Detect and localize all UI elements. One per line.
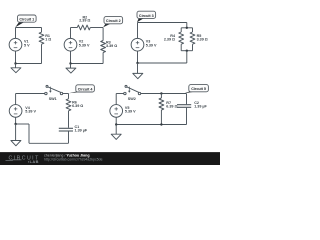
wire V2 bottom lead	[70, 51, 72, 63]
wire left vertical circuit 1	[15, 28, 17, 39]
wire R5 top lead	[192, 28, 194, 32]
svg-text:Circuit 4: Circuit 4	[78, 87, 94, 91]
voltage source V5	[110, 105, 123, 118]
voltage source V4	[9, 105, 22, 118]
node junction parallel top	[186, 27, 188, 29]
wire parallel stub	[186, 23, 188, 28]
wire ground lead circuit 5	[115, 125, 117, 135]
wire R5 bottom lead	[192, 44, 194, 51]
wire parallel bottom bar	[181, 50, 192, 52]
wire top rail circuit 5 right	[141, 93, 187, 95]
voltage source V1	[9, 38, 22, 51]
resistor R5	[190, 32, 195, 44]
switch SW2	[124, 92, 126, 94]
wire ground lead circuit 3	[137, 63, 139, 73]
svg-text:3.39 Ω: 3.39 Ω	[106, 44, 117, 48]
svg-text:Circuit 2: Circuit 2	[106, 19, 121, 23]
node junction R7 top	[160, 92, 162, 94]
svg-text:http://circuitlab.com/c/7hs94a: http://circuitlab.com/c/7hs94a2kpc5de	[44, 157, 103, 161]
wire R4 top lead	[180, 28, 182, 32]
wire SW1 to R6	[63, 93, 69, 95]
svg-text:5.39 V: 5.39 V	[146, 44, 157, 48]
wire R6 top lead	[68, 94, 70, 99]
wire V1 bottom lead	[15, 51, 17, 63]
node junction circuit 3	[136, 62, 138, 64]
wire R4 bottom lead	[180, 44, 182, 51]
wire bottom rail circuit 5	[116, 124, 186, 126]
node junction circuit 4	[14, 123, 16, 125]
svg-text:SW1: SW1	[49, 97, 57, 101]
callout Circuit 5	[184, 85, 208, 94]
wire top rail circuit 1	[16, 27, 42, 29]
svg-text:6.39 Ω: 6.39 Ω	[72, 104, 83, 108]
resistor R2	[77, 25, 90, 30]
svg-text:2.39 Ω: 2.39 Ω	[79, 19, 90, 23]
wire ground lead circuit 4	[15, 124, 17, 141]
svg-text:5.39 V: 5.39 V	[125, 110, 136, 114]
svg-text:5.39 V: 5.39 V	[25, 110, 36, 114]
voltage source V3	[131, 38, 144, 51]
wire C2 bottom lead	[186, 108, 188, 125]
svg-text:1.39 µF: 1.39 µF	[194, 105, 207, 109]
svg-text:SW2: SW2	[128, 97, 136, 101]
wire R1 top lead	[41, 28, 43, 33]
wire bottom rail circuit 1	[16, 63, 42, 65]
wire R7 bottom lead	[160, 110, 162, 125]
svg-text:3.39 Ω: 3.39 Ω	[197, 38, 208, 42]
callout Circuit 4	[69, 85, 95, 94]
wire V3 bottom lead	[137, 51, 139, 63]
svg-text:1 Ω: 1 Ω	[45, 38, 51, 42]
node junction circuit 2	[69, 62, 71, 64]
logo CircuitLab	[6, 156, 40, 165]
wire left vertical circuit 3	[137, 23, 139, 39]
capacitor C2	[177, 104, 191, 106]
svg-text:Circuit 3: Circuit 3	[139, 14, 154, 18]
ground circuit 5	[111, 134, 121, 139]
svg-text:1.39 µF: 1.39 µF	[75, 129, 88, 133]
node junction circuit 5 ground	[115, 123, 117, 125]
wire R3 top lead	[102, 28, 104, 41]
wire riser circuit 4	[28, 124, 30, 143]
wire left vertical circuit 2	[70, 28, 72, 39]
svg-text:2.39 Ω: 2.39 Ω	[164, 38, 175, 42]
wire top rail circuit 3	[138, 22, 187, 24]
wire R7 top lead	[160, 94, 162, 99]
wire V4 bottom lead	[15, 117, 17, 124]
wire R3 bottom lead	[102, 53, 104, 64]
resistor R6	[66, 99, 71, 111]
callout Circuit 2	[103, 17, 122, 28]
capacitor C1	[59, 127, 73, 129]
svg-text:5 V: 5 V	[24, 44, 30, 48]
wire bottom rail circuit 4	[29, 142, 69, 144]
voltage source V2	[64, 38, 77, 51]
wire R2 right lead	[90, 27, 103, 29]
wire C2 top lead	[186, 94, 188, 105]
ground circuit 4	[11, 141, 21, 146]
resistor R1	[39, 32, 44, 44]
wire left vertical circuit 5	[115, 94, 117, 105]
wire parallel top bar	[181, 27, 192, 29]
ground circuit 2	[66, 68, 76, 73]
wire junction link circuit 4	[16, 123, 29, 125]
callout Circuit 3	[137, 11, 156, 22]
wire bottom rail circuit 2	[71, 63, 104, 65]
svg-text:6.39 Ω: 6.39 Ω	[166, 104, 177, 108]
resistor R4	[179, 32, 184, 44]
resistor R3	[101, 41, 106, 53]
callout Circuit 1	[15, 15, 36, 27]
ground circuit 3	[133, 73, 143, 78]
ground circuit 1	[11, 68, 21, 73]
node junction circuit 1	[14, 62, 16, 64]
svg-text:5.39 V: 5.39 V	[79, 44, 90, 48]
svg-text:▪LAB: ▪LAB	[28, 159, 39, 164]
wire top rail circuit 4	[16, 93, 45, 95]
wire left vertical circuit 4	[15, 94, 17, 105]
wire ground lead circuit 2	[70, 64, 72, 69]
wire bottom rail circuit 3	[138, 62, 187, 64]
resistor R7	[159, 98, 164, 110]
wire parallel stem	[186, 51, 188, 63]
switch SW1	[45, 92, 47, 94]
node junction parallel bottom	[186, 50, 188, 52]
wire R6 to C1	[68, 111, 70, 128]
wire V5 bottom lead	[115, 117, 117, 124]
footer bar	[0, 152, 220, 165]
wire C1 bottom lead	[68, 132, 70, 144]
svg-text:Circuit 1: Circuit 1	[19, 18, 34, 22]
svg-text:Circuit 5: Circuit 5	[191, 87, 206, 91]
node junction R7 bottom	[160, 123, 162, 125]
wire top rail circuit 5 left	[116, 93, 124, 95]
wire R1 bottom lead	[41, 44, 43, 63]
wire R2 left lead	[71, 27, 78, 29]
wire ground lead circuit 1	[15, 64, 17, 68]
